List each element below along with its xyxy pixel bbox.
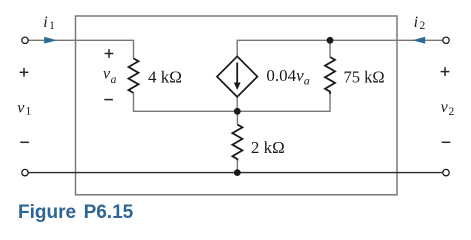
resistor 75 kOhm bbox=[325, 57, 335, 94]
wire: 4k bottom, middle node wire, 75k bottom lead bbox=[134, 93, 331, 111]
wire: left terminal to 4k top bbox=[28, 40, 134, 58]
label minus v2 bbox=[442, 141, 451, 143]
label minus v1 bbox=[20, 141, 29, 143]
wire: dependent source top lead and top-right wire to right terminal bbox=[237, 40, 442, 56]
current arrow i1 bbox=[44, 37, 57, 44]
node: junction dot top of 75k bbox=[327, 37, 334, 44]
terminal: top-left bbox=[22, 37, 28, 43]
arrow inside source bbox=[236, 63, 238, 84]
current arrow i2 bbox=[412, 37, 425, 44]
svg-text:75 kΩ: 75 kΩ bbox=[344, 67, 385, 86]
terminal: top-right bbox=[443, 37, 449, 43]
svg-text:P6.15: P6.15 bbox=[84, 202, 134, 223]
label minus va bbox=[104, 99, 113, 101]
svg-text:2 kΩ: 2 kΩ bbox=[251, 138, 285, 157]
resistor 4 kOhm bbox=[129, 58, 139, 93]
terminal: bottom-left bbox=[22, 169, 28, 175]
label plus va bbox=[105, 53, 114, 55]
resistor 2 kOhm bbox=[232, 125, 242, 161]
terminal: bottom-right bbox=[443, 169, 449, 175]
node: junction dot middle bbox=[234, 108, 241, 115]
node: junction dot bottom bbox=[234, 169, 241, 176]
dependent current source U1 (diamond) bbox=[217, 56, 257, 97]
svg-text:Figure: Figure bbox=[18, 202, 76, 223]
svg-text:0.04va: 0.04va bbox=[266, 66, 309, 88]
wire: dependent source bottom lead bbox=[236, 97, 238, 111]
wire: 2k leads bbox=[236, 111, 238, 124]
wire: 75k top lead bbox=[329, 40, 331, 57]
svg-text:4 kΩ: 4 kΩ bbox=[148, 67, 182, 86]
label plus v2 bbox=[441, 71, 450, 73]
wire: bottom rail bbox=[29, 172, 443, 174]
two-port network box bbox=[76, 16, 398, 195]
label plus v1 bbox=[20, 71, 29, 73]
